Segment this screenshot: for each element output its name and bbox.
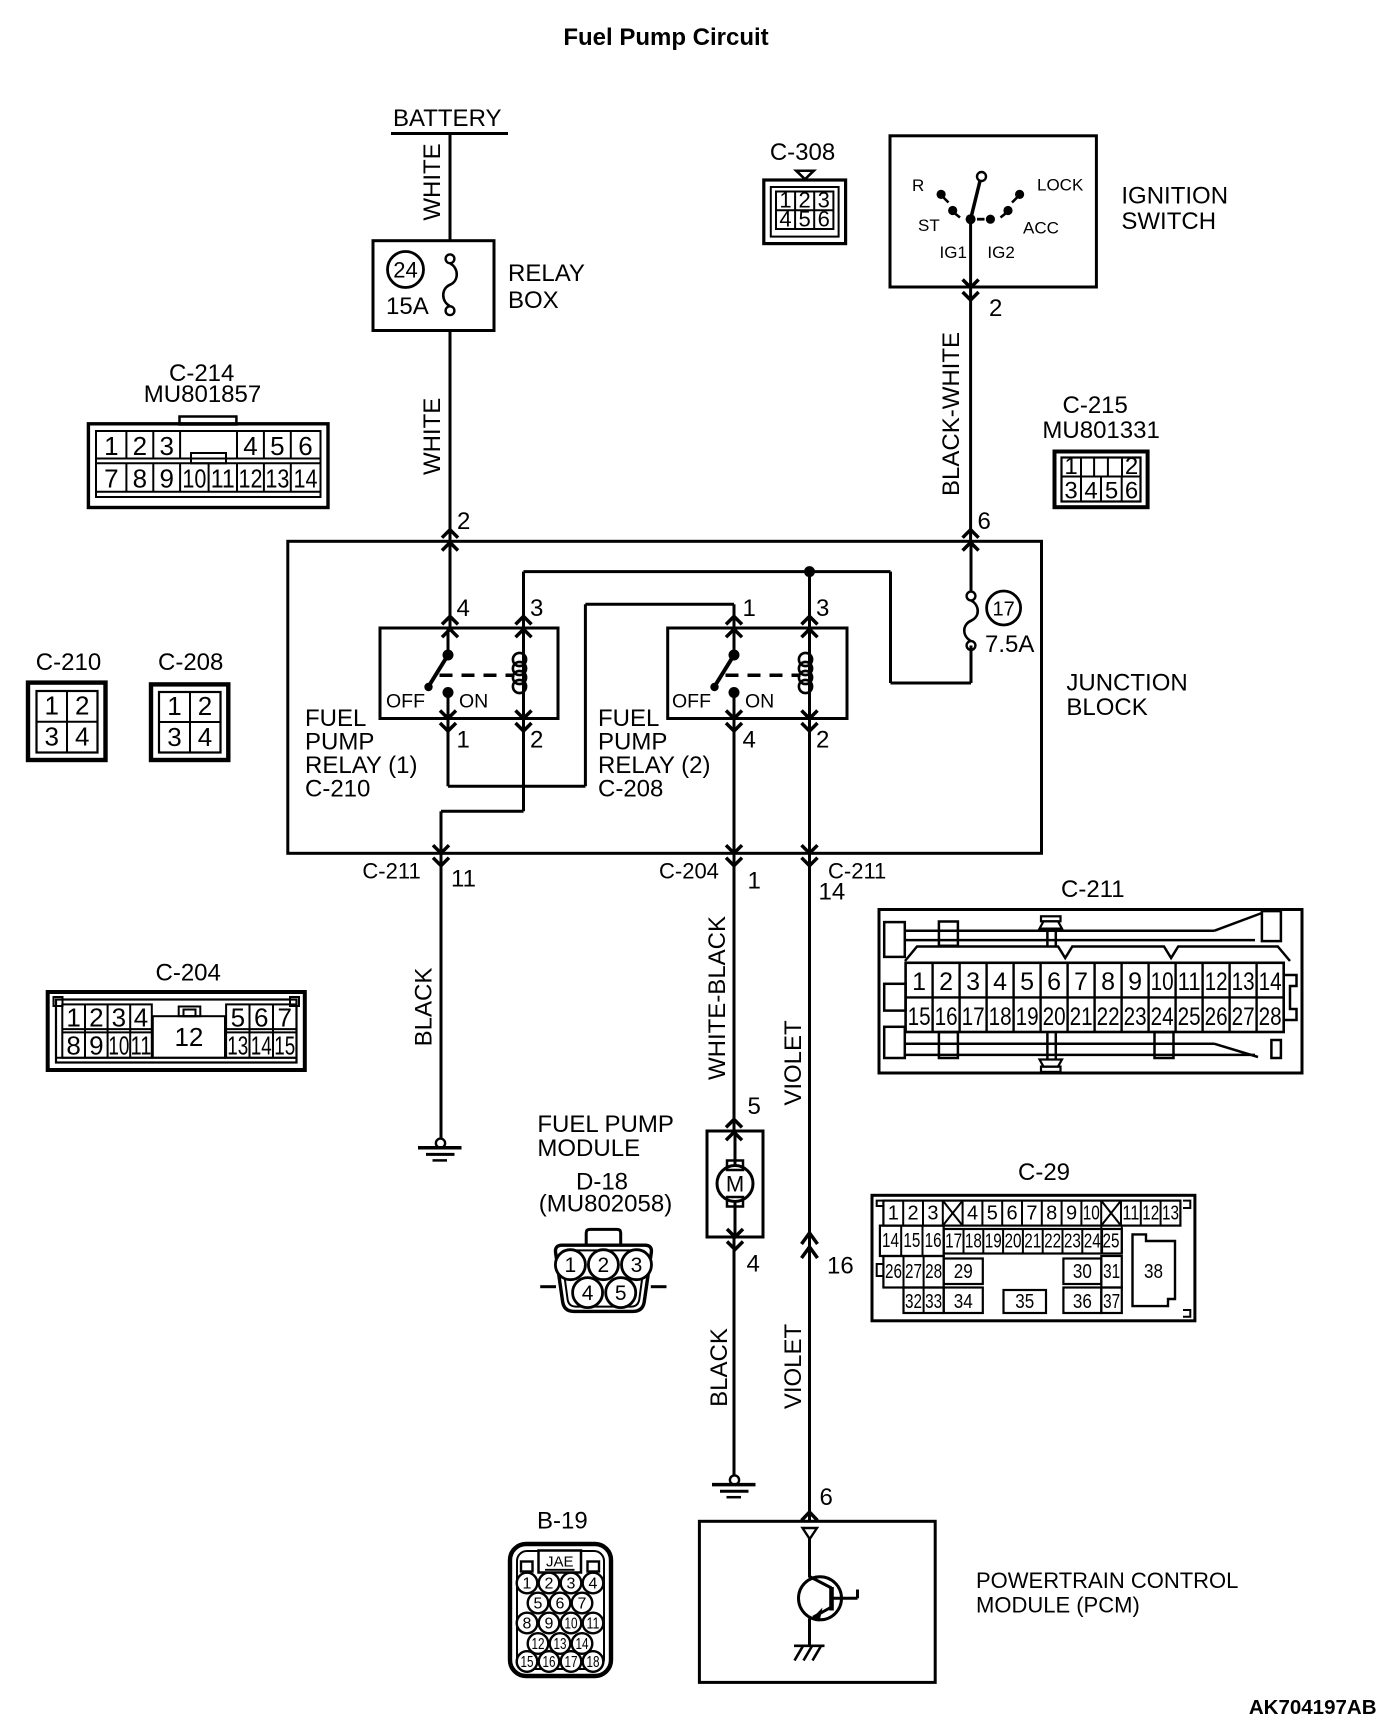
powertrain control module box	[699, 1521, 935, 1682]
svg-text:2: 2	[989, 295, 1002, 322]
C-211 bottom bolt	[1046, 1032, 1049, 1059]
relay1 actuation dashed link	[440, 674, 515, 678]
svg-text:4: 4	[779, 207, 791, 232]
svg-text:2: 2	[816, 727, 829, 754]
B-19 pin 2 circle	[539, 1573, 560, 1594]
transistor base lead	[832, 1597, 858, 1600]
svg-text:WHITE: WHITE	[419, 398, 446, 475]
C-204 pin grid left block	[62, 1004, 152, 1057]
svg-text:(MU802058): (MU802058)	[539, 1191, 672, 1218]
transistor emitter with arrow	[813, 1607, 832, 1617]
svg-text:38: 38	[1144, 1261, 1163, 1283]
transistor base lead hook	[856, 1590, 859, 1599]
relay1 ON contact	[443, 687, 454, 698]
svg-text:AK704197AB: AK704197AB	[1249, 1696, 1377, 1719]
B-19 pin 12 circle	[528, 1633, 549, 1654]
svg-text:15: 15	[903, 1230, 920, 1252]
arrow on VIOLET wire 1	[802, 1233, 818, 1244]
svg-text:3: 3	[966, 968, 980, 996]
svg-text:7: 7	[277, 1003, 291, 1033]
svg-text:22: 22	[1097, 1003, 1120, 1031]
connector C-204 body	[48, 992, 305, 1070]
svg-text:1: 1	[1064, 453, 1077, 480]
svg-text:7: 7	[578, 1596, 587, 1613]
svg-text:13: 13	[1162, 1203, 1179, 1225]
connector C-308 key triangle	[793, 170, 817, 182]
svg-text:7: 7	[1074, 968, 1088, 996]
svg-text:5: 5	[231, 1003, 245, 1033]
fuel pump motor M	[734, 1131, 737, 1166]
wire horizontal to relay2 pin1	[585, 603, 734, 606]
arrows into junction block at pin 6	[963, 530, 979, 538]
fuel pump relay 1 box C-210	[380, 628, 558, 719]
wire relay1 pin2 horizontal	[441, 810, 524, 813]
svg-text:19: 19	[985, 1231, 1002, 1253]
svg-text:36: 36	[1073, 1291, 1092, 1313]
svg-text:ST: ST	[918, 216, 940, 235]
svg-text:IGNITION: IGNITION	[1121, 183, 1228, 210]
svg-text:C-308: C-308	[770, 139, 835, 166]
svg-text:2: 2	[75, 691, 89, 721]
junction block outline	[288, 541, 1042, 853]
svg-text:16: 16	[827, 1253, 854, 1280]
arrows into fuel pump module	[726, 1119, 742, 1127]
svg-text:6: 6	[978, 508, 991, 535]
svg-text:22: 22	[1044, 1231, 1061, 1253]
wire emitter to chassis ground	[808, 1619, 811, 1647]
svg-text:R: R	[912, 176, 924, 195]
C-308 pin grid	[776, 192, 833, 230]
relay1 switch common contact	[443, 650, 454, 661]
svg-text:JAE: JAE	[546, 1554, 574, 1571]
svg-text:2: 2	[1125, 453, 1138, 480]
svg-text:21: 21	[1024, 1231, 1041, 1253]
svg-text:4: 4	[457, 595, 470, 622]
relay2 OFF contact	[710, 683, 718, 691]
relay2 pin4 internal wire	[733, 693, 736, 719]
svg-text:8: 8	[523, 1616, 532, 1633]
connector C-29 body	[872, 1195, 1195, 1321]
C-211 left latch	[884, 984, 905, 1011]
svg-text:JUNCTION: JUNCTION	[1066, 670, 1187, 697]
wire relay2 pin2 to C-211 exit	[808, 719, 811, 854]
svg-text:4: 4	[743, 727, 756, 754]
svg-text:18: 18	[989, 1003, 1012, 1031]
svg-text:4: 4	[967, 1203, 978, 1225]
wire relay1 pin2 down	[522, 719, 525, 812]
ground (fuel pump BLACK wire)	[730, 1475, 739, 1484]
B-19 left notch	[521, 1562, 533, 1572]
svg-text:21: 21	[1070, 1003, 1093, 1031]
svg-text:1: 1	[167, 691, 181, 721]
connector C-308 body	[764, 180, 846, 244]
svg-text:33: 33	[925, 1291, 942, 1313]
B-19 pin 14 circle	[572, 1633, 593, 1654]
svg-text:VIOLET: VIOLET	[780, 1020, 807, 1106]
connector C-215 body	[1055, 452, 1148, 508]
svg-text:5: 5	[748, 1093, 761, 1120]
relay2 coil	[808, 628, 811, 719]
ignition switch pivot	[966, 214, 976, 224]
svg-text:16: 16	[935, 1003, 958, 1031]
D-18 pin 2 circle	[588, 1250, 618, 1280]
svg-text:35: 35	[1015, 1291, 1034, 1313]
svg-text:6: 6	[818, 207, 830, 232]
svg-text:10: 10	[1083, 1203, 1100, 1225]
arrow into PCM	[802, 1512, 818, 1521]
svg-text:5: 5	[798, 207, 810, 232]
svg-text:16: 16	[543, 1654, 556, 1671]
wire relay1 pin1 down	[447, 719, 450, 787]
B-19 pin 6 circle	[550, 1593, 571, 1614]
svg-text:17: 17	[992, 599, 1014, 621]
svg-text:5: 5	[534, 1596, 543, 1613]
svg-text:MODULE: MODULE	[537, 1135, 640, 1162]
svg-text:2: 2	[908, 1203, 919, 1225]
svg-text:29: 29	[954, 1261, 973, 1283]
svg-text:12: 12	[239, 464, 263, 494]
B-19 pin 5 circle	[528, 1593, 549, 1614]
svg-text:25: 25	[1178, 1003, 1201, 1031]
svg-text:3: 3	[567, 1576, 576, 1593]
svg-text:18: 18	[587, 1654, 600, 1671]
connector C-210 body	[28, 683, 106, 760]
D-18 pin 1 circle	[555, 1250, 585, 1280]
relay2 actuation dashed link	[726, 674, 801, 678]
svg-text:9: 9	[1128, 968, 1142, 996]
B-19 right notch	[588, 1562, 600, 1572]
svg-text:11: 11	[587, 1616, 600, 1633]
wire relay box to junction block (WHITE)	[449, 331, 452, 542]
arrows into junction block at pin 2	[442, 530, 458, 538]
B-19 pin 18 circle	[583, 1651, 604, 1672]
relay2 ON contact	[729, 687, 740, 698]
D-18 pin 3 circle	[622, 1250, 652, 1280]
wire C-204 pin1 to fuel pump (WHITE-BLACK)	[733, 853, 736, 1131]
svg-text:6: 6	[1047, 968, 1061, 996]
svg-text:32: 32	[905, 1291, 922, 1313]
svg-text:13: 13	[1232, 968, 1255, 996]
svg-text:MU801331: MU801331	[1042, 417, 1159, 444]
B-19 pin 16 circle	[539, 1651, 560, 1672]
svg-text:LOCK: LOCK	[1037, 175, 1084, 194]
svg-text:C-208: C-208	[598, 776, 663, 803]
svg-text:C-204: C-204	[659, 859, 719, 884]
svg-text:10: 10	[108, 1031, 129, 1061]
svg-text:FUEL PUMP: FUEL PUMP	[537, 1111, 673, 1138]
ground (left BLACK wire)	[436, 1139, 445, 1148]
wire to C-211 pin11 exit	[440, 811, 443, 853]
svg-text:3: 3	[159, 431, 173, 461]
svg-text:POWERTRAIN CONTROL: POWERTRAIN CONTROL	[976, 1568, 1238, 1593]
fuel pump module box	[707, 1131, 763, 1237]
svg-text:8: 8	[1101, 968, 1115, 996]
svg-text:1: 1	[66, 1003, 80, 1033]
svg-text:34: 34	[954, 1291, 973, 1313]
svg-text:2: 2	[457, 508, 470, 535]
PCM input triangle	[803, 1528, 818, 1539]
wire pin2 to relay1 pin4	[449, 541, 452, 628]
arrow on VIOLET wire 2	[802, 1247, 818, 1258]
svg-text:6: 6	[254, 1003, 268, 1033]
wire up segment to relay2 pin1	[584, 604, 587, 786]
svg-text:2: 2	[133, 431, 147, 461]
arrows into relay1 pin 3	[516, 616, 532, 624]
svg-text:C-211: C-211	[362, 859, 420, 884]
svg-text:9: 9	[89, 1031, 103, 1061]
ignition switch contact ST	[948, 206, 957, 215]
wire relay2 pin4 to C-204 exit	[733, 719, 736, 854]
svg-text:ON: ON	[745, 691, 774, 713]
B-19 pin 15 circle	[517, 1651, 538, 1672]
C-214 pin grid	[96, 458, 321, 460]
ignition switch box	[890, 136, 1096, 287]
svg-text:13: 13	[227, 1031, 248, 1061]
B-19 JAE tab	[539, 1551, 582, 1573]
B-19 pin 9 circle	[539, 1613, 560, 1634]
svg-text:2: 2	[89, 1003, 103, 1033]
arrows out of junction block C-211 pin 11	[433, 845, 449, 853]
svg-text:27: 27	[1232, 1003, 1255, 1031]
C-29 pin row 2	[880, 1226, 944, 1256]
svg-text:M: M	[726, 1172, 744, 1197]
connector C-214 body	[180, 417, 237, 425]
svg-text:20: 20	[1005, 1231, 1022, 1253]
arrows out of relay2 pin 4	[726, 711, 742, 719]
relay1 switch lever (OFF position)	[429, 655, 449, 687]
wire IG inside switch	[969, 224, 972, 287]
D-18 right wing	[651, 1285, 667, 1288]
svg-text:IG2: IG2	[987, 243, 1014, 262]
arrows out of ignition switch	[963, 280, 979, 288]
svg-text:MODULE (PCM): MODULE (PCM)	[976, 1593, 1140, 1618]
arrows out of relay1 pin 2	[516, 711, 532, 719]
svg-text:Fuel Pump Circuit: Fuel Pump Circuit	[563, 24, 768, 51]
svg-text:VIOLET: VIOLET	[780, 1323, 807, 1409]
svg-text:1: 1	[104, 431, 118, 461]
wire C-211 pin11 to ground (BLACK)	[440, 853, 443, 1138]
svg-text:26: 26	[885, 1261, 902, 1283]
B-19 pin 8 circle	[517, 1613, 538, 1634]
arrows out of fuel pump module	[727, 1229, 743, 1237]
fuel pump relay 2 box C-208	[668, 628, 847, 719]
svg-text:2: 2	[598, 1254, 610, 1277]
svg-text:5: 5	[615, 1282, 627, 1305]
svg-text:3: 3	[816, 595, 829, 622]
C-29 corner tabs	[877, 1201, 884, 1206]
svg-text:4: 4	[243, 431, 257, 461]
transistor Q (output driver)	[799, 1577, 842, 1620]
svg-text:15A: 15A	[386, 293, 429, 320]
svg-text:4: 4	[589, 1576, 598, 1593]
svg-text:9: 9	[159, 464, 173, 494]
arrows out of junction block C-211 pin 14	[802, 845, 818, 853]
wire bus to fuse 17 segment v	[889, 572, 892, 683]
ignition switch contact ACC	[1003, 206, 1012, 215]
svg-text:6: 6	[1125, 478, 1138, 505]
svg-text:15: 15	[274, 1031, 295, 1061]
svg-text:3: 3	[530, 595, 543, 622]
B-19 pin 1 circle	[517, 1573, 538, 1594]
svg-text:C-29: C-29	[1018, 1159, 1070, 1186]
svg-text:SWITCH: SWITCH	[1121, 208, 1216, 235]
svg-text:1: 1	[565, 1254, 577, 1277]
svg-text:11: 11	[211, 464, 235, 494]
B-19 pin 7 circle	[572, 1593, 593, 1614]
svg-text:14: 14	[576, 1636, 589, 1653]
D-18 left wing	[540, 1285, 556, 1288]
svg-text:WHITE-BLACK: WHITE-BLACK	[704, 916, 731, 1080]
svg-text:5: 5	[1020, 968, 1034, 996]
transistor base bar	[829, 1587, 834, 1611]
svg-text:25: 25	[1103, 1231, 1120, 1253]
svg-text:ACC: ACC	[1023, 218, 1059, 237]
svg-text:27: 27	[905, 1261, 922, 1283]
svg-text:1: 1	[523, 1576, 532, 1593]
svg-text:1: 1	[888, 1203, 899, 1225]
svg-text:12: 12	[532, 1636, 545, 1653]
svg-text:1: 1	[457, 727, 470, 754]
ignition switch contact LOCK	[1015, 190, 1024, 199]
svg-text:37: 37	[1103, 1291, 1120, 1313]
wire fuel pump to ground (BLACK)	[733, 1237, 736, 1475]
svg-text:1: 1	[743, 595, 756, 622]
svg-text:B-19: B-19	[537, 1508, 588, 1535]
relay2 pin1 internal wire	[733, 628, 736, 655]
svg-text:OFF: OFF	[672, 691, 711, 713]
arrows into relay2 pin 3	[802, 616, 818, 624]
svg-text:8: 8	[1046, 1203, 1057, 1225]
svg-text:5: 5	[987, 1203, 998, 1225]
svg-text:15: 15	[908, 1003, 931, 1031]
svg-text:3: 3	[44, 722, 58, 752]
relay1 pin4 internal wire	[447, 628, 450, 655]
B-19 pin 4 circle	[583, 1573, 604, 1594]
arrows into relay1 pin 4	[442, 616, 458, 624]
svg-text:4: 4	[134, 1003, 148, 1033]
fuse element (15A fuse 24)	[446, 254, 455, 263]
fuse element (7.5A fuse 17)	[967, 592, 976, 601]
svg-text:10: 10	[565, 1616, 578, 1633]
C-204 pin grid right block	[226, 1004, 296, 1057]
svg-text:1: 1	[912, 968, 926, 996]
svg-text:RELAY: RELAY	[508, 260, 585, 287]
arrows out of relay2 pin 2	[802, 711, 818, 719]
wire pin6 to fuse 17 top	[970, 541, 973, 591]
svg-text:24: 24	[393, 258, 417, 283]
svg-text:16: 16	[925, 1230, 942, 1252]
svg-text:11: 11	[131, 1031, 152, 1061]
svg-text:MU801857: MU801857	[144, 381, 261, 408]
wire C-211 pin14 to PCM (VIOLET)	[808, 853, 811, 1521]
C-29 pin 38 cell	[1133, 1234, 1176, 1306]
svg-text:31: 31	[1103, 1261, 1120, 1283]
B-19 pin 11 circle	[583, 1613, 604, 1634]
svg-text:15: 15	[521, 1654, 534, 1671]
svg-text:8: 8	[133, 464, 147, 494]
ignition switch contact R	[937, 190, 946, 199]
wire down into relay2 pin1	[733, 604, 736, 628]
svg-text:2: 2	[530, 727, 543, 754]
svg-text:19: 19	[1016, 1003, 1039, 1031]
connector D-18 body	[586, 1229, 621, 1245]
wire ignition to junction block (BLACK-WHITE)	[969, 287, 972, 541]
relay1 coil	[522, 628, 525, 719]
svg-text:13: 13	[554, 1636, 567, 1653]
svg-text:12: 12	[1205, 968, 1228, 996]
svg-text:BOX: BOX	[508, 287, 559, 314]
fuse number circle 24	[388, 252, 424, 288]
svg-text:3: 3	[631, 1254, 643, 1277]
svg-text:3: 3	[112, 1003, 126, 1033]
svg-text:BATTERY: BATTERY	[393, 105, 501, 132]
svg-text:7.5A: 7.5A	[985, 631, 1034, 658]
svg-text:BLACK: BLACK	[706, 1328, 733, 1407]
svg-text:14: 14	[882, 1230, 899, 1252]
svg-text:1: 1	[44, 691, 58, 721]
svg-text:4: 4	[993, 968, 1007, 996]
svg-text:24: 24	[1151, 1003, 1174, 1031]
B-19 pin 10 circle	[561, 1613, 582, 1634]
relay box outline	[373, 241, 494, 331]
svg-text:20: 20	[1043, 1003, 1066, 1031]
relay2 switch common contact	[729, 650, 740, 661]
svg-text:8: 8	[66, 1031, 80, 1061]
svg-text:12: 12	[1142, 1203, 1159, 1225]
svg-text:6: 6	[556, 1596, 565, 1613]
svg-text:12: 12	[174, 1022, 203, 1052]
svg-text:24: 24	[1084, 1231, 1101, 1253]
connector B-19 body	[510, 1544, 611, 1676]
svg-text:10: 10	[1151, 968, 1174, 996]
svg-text:5: 5	[270, 431, 284, 461]
svg-text:18: 18	[965, 1231, 982, 1253]
svg-text:10: 10	[182, 464, 206, 494]
svg-text:6: 6	[820, 1484, 833, 1511]
svg-text:C-204: C-204	[156, 960, 221, 987]
bus wire relay coils feed	[524, 570, 891, 573]
svg-text:4: 4	[747, 1251, 760, 1278]
svg-text:30: 30	[1073, 1261, 1092, 1283]
svg-text:9: 9	[1066, 1203, 1077, 1225]
svg-text:17: 17	[962, 1003, 985, 1031]
wire bus to fuse 17 segment h	[891, 682, 972, 685]
B-19 pin 17 circle	[561, 1651, 582, 1672]
C-211 top rail	[884, 922, 905, 957]
wire triangle to transistor collector	[808, 1539, 811, 1578]
B-19 pin 13 circle	[550, 1633, 571, 1654]
relay2 switch lever (OFF position)	[715, 655, 735, 687]
svg-text:4: 4	[75, 722, 89, 752]
svg-text:7: 7	[104, 464, 118, 494]
svg-text:3: 3	[927, 1203, 938, 1225]
D-18 pin 5 circle	[606, 1278, 636, 1308]
svg-text:BLACK: BLACK	[411, 968, 438, 1047]
svg-text:17: 17	[565, 1654, 578, 1671]
svg-text:14: 14	[294, 464, 318, 494]
svg-text:13: 13	[265, 464, 289, 494]
C-29 pin row 1	[883, 1201, 1180, 1226]
fuse number circle 17	[987, 591, 1021, 625]
ignition switch rotor lever	[971, 179, 981, 220]
C-211 pin grid	[906, 963, 1284, 1032]
chassis ground	[794, 1645, 825, 1648]
arrows out of junction block C-204 pin 1	[726, 845, 742, 853]
C-211 bottom rail	[884, 1027, 905, 1058]
connector C-211 body	[879, 910, 1302, 1074]
svg-text:4: 4	[582, 1282, 594, 1305]
battery bus underline	[391, 132, 508, 135]
